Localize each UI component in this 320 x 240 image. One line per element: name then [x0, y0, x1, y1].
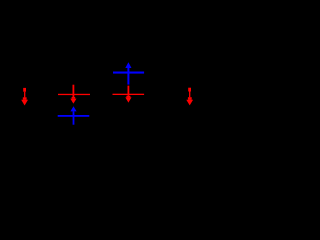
current arrow I1 (left wire, red, pointing down) — [21, 88, 28, 106]
capacitor C2 top plate (blue, negative) — [113, 72, 144, 74]
capacitor C2 bottom plate (red, positive) — [113, 94, 145, 95]
current arrow I6 (right wire, red, pointing down) — [186, 88, 193, 106]
current arrow I2 into C1 top plate (red, pointing down) — [70, 85, 76, 104]
capacitor C1 top plate (red, positive) — [58, 94, 90, 95]
current arrow I5 out of C2 bottom plate (red, pointing down) — [125, 86, 131, 103]
capacitor C1 bottom plate (blue, negative) — [58, 115, 90, 117]
current arrow I4 out of C2 top plate (blue, pointing up) — [125, 62, 131, 84]
current arrow I3 into C1 bottom plate (blue, pointing up) — [70, 106, 76, 124]
